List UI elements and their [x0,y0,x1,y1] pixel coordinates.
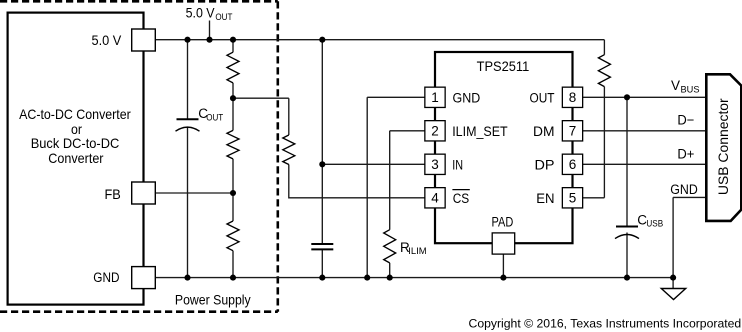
svg-text:TPS2511: TPS2511 [477,59,530,74]
svg-text:5.0 V: 5.0 V [186,4,216,20]
svg-text:EN: EN [536,191,554,206]
svg-text:Power Supply: Power Supply [175,291,251,307]
svg-text:DM: DM [533,124,555,139]
svg-text:Buck DC-to-DC: Buck DC-to-DC [31,135,120,151]
svg-text:GND: GND [453,90,481,105]
svg-text:GND: GND [93,270,119,285]
svg-text:2: 2 [431,124,439,139]
svg-text:USB Connector: USB Connector [715,98,731,195]
svg-text:D−: D− [677,112,694,127]
svg-text:Copyright © 2016, Texas Instru: Copyright © 2016, Texas Instruments Inco… [469,316,742,330]
svg-text:8: 8 [569,90,577,105]
svg-text:DP: DP [535,157,555,172]
svg-text:OUT: OUT [530,90,555,105]
svg-text:FB: FB [105,187,121,202]
svg-text:3: 3 [431,157,439,172]
svg-text:OUT: OUT [206,112,223,123]
svg-text:6: 6 [569,157,577,172]
svg-text:GND: GND [670,182,698,197]
svg-text:4: 4 [431,191,439,206]
svg-text:IN: IN [452,157,463,172]
svg-text:CS: CS [453,191,470,206]
svg-text:ILIM_SET: ILIM_SET [452,124,508,139]
svg-text:D+: D+ [677,146,694,161]
svg-text:AC-to-DC Converter: AC-to-DC Converter [19,106,131,122]
svg-text:PAD: PAD [492,214,514,229]
svg-text:5: 5 [569,191,577,206]
svg-text:1: 1 [431,90,439,105]
svg-text:V: V [671,78,680,93]
svg-text:5.0 V: 5.0 V [92,33,122,48]
svg-text:Converter: Converter [48,150,104,166]
svg-text:BUS: BUS [681,84,700,95]
svg-text:USB: USB [646,219,663,230]
svg-text:OUT: OUT [215,12,232,23]
svg-text:7: 7 [569,124,577,139]
svg-text:ILIM: ILIM [408,246,426,257]
